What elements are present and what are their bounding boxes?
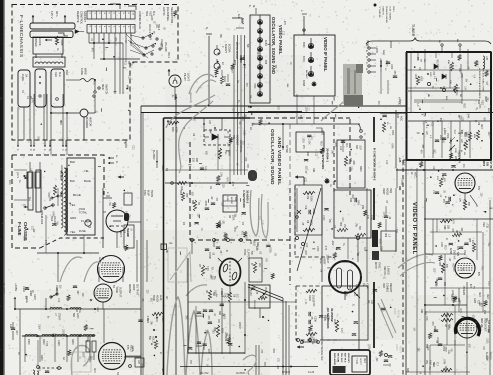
- svg-text:4.7K: 4.7K: [146, 316, 148, 321]
- svg-text:1M: 1M: [413, 327, 415, 330]
- svg-text:125: 125: [249, 240, 252, 245]
- svg-text:K-: K-: [171, 95, 175, 98]
- svg-text:7D: 7D: [329, 184, 331, 187]
- VIDEO IF PANEL small box: [294, 35, 335, 96]
- svg-text:10%: 10%: [129, 41, 131, 46]
- svg-text:10%: 10%: [425, 316, 427, 321]
- heavy stub 3: [373, 282, 375, 348]
- tube AUD OUT: [98, 256, 125, 283]
- plug cartridge 2: [51, 69, 64, 107]
- ladder verticals: [423, 121, 425, 158]
- svg-text:R44: R44: [256, 51, 258, 56]
- svg-text:750K: 750K: [161, 316, 164, 322]
- svg-text:VR: VR: [24, 296, 26, 300]
- svg-text:YEL: YEL: [70, 230, 76, 234]
- svg-text:GRN: GRN: [436, 337, 438, 342]
- heavy stub 2: [373, 188, 375, 220]
- svg-text:PH-100: PH-100: [282, 371, 291, 374]
- svg-text:39K: 39K: [345, 293, 347, 298]
- svg-text:R44: R44: [487, 329, 489, 334]
- svg-text:1500: 1500: [462, 286, 464, 292]
- hor osc box: [188, 282, 245, 353]
- svg-text:47K: 47K: [420, 150, 422, 155]
- capacitor E13: [11, 327, 15, 329]
- VIDEO IF dashed border: [402, 160, 404, 375]
- fuse F1: [85, 220, 91, 226]
- pencil arcs A3: [60, 257, 82, 282]
- svg-text:1500: 1500: [27, 339, 30, 345]
- svg-text:GRN: GRN: [51, 211, 53, 216]
- small transistor symbols: [214, 49, 220, 55]
- svg-text:C31: C31: [123, 61, 125, 66]
- wire x425: [424, 160, 426, 375]
- med switch contact: [94, 91, 96, 93]
- wire y366: [180, 366, 318, 368]
- B4 box contents: [208, 290, 211, 300]
- svg-text:6800: 6800: [223, 314, 225, 320]
- wire K bus: [208, 36, 210, 106]
- tuner brace: [366, 38, 491, 44]
- svg-text:1K: 1K: [458, 232, 460, 235]
- svg-text:R44: R44: [272, 349, 274, 354]
- svg-text:6BZ6: 6BZ6: [302, 42, 304, 48]
- svg-text:R82: R82: [226, 293, 228, 298]
- wire x20: [19, 309, 21, 375]
- svg-text:6CB6: 6CB6: [449, 248, 452, 255]
- svg-text:VIDEO IF PANEL: VIDEO IF PANEL: [411, 202, 417, 255]
- control cable wires: [233, 35, 235, 175]
- svg-text:6800: 6800: [37, 366, 39, 372]
- svg-text:BLK: BLK: [70, 160, 75, 164]
- svg-text:GRN: GRN: [150, 15, 152, 20]
- svg-text:220K: 220K: [454, 148, 456, 154]
- svg-text:C12: C12: [57, 298, 59, 303]
- svg-text:100: 100: [192, 158, 195, 163]
- svg-text:AGC: AGC: [305, 74, 308, 79]
- tube 2ND VIF 525: [455, 258, 475, 278]
- fuse wire squiggle: [80, 79, 95, 82]
- svg-text:RED: RED: [478, 292, 480, 297]
- resistor 470K: [55, 36, 58, 45]
- small relay circuit: [53, 185, 56, 195]
- terminal strip bus wires down: [88, 33, 90, 43]
- svg-text:VIDEO: VIDEO: [489, 352, 492, 360]
- svg-text:1500: 1500: [243, 130, 245, 136]
- svg-text:VR: VR: [485, 82, 487, 86]
- svg-text:DR: DR: [459, 94, 461, 98]
- svg-text:VR: VR: [482, 346, 484, 350]
- svg-text:R88: R88: [443, 225, 446, 230]
- C3 right box: [334, 190, 371, 238]
- svg-text:+265V: +265V: [14, 283, 18, 291]
- left dark tube blob: [248, 170, 257, 181]
- svg-text:39K: 39K: [185, 315, 187, 320]
- svg-text:BLUE: BLUE: [73, 193, 81, 197]
- resistor R8 100K: [303, 228, 315, 231]
- svg-text:.001: .001: [472, 314, 474, 319]
- svg-text:6AW8: 6AW8: [302, 80, 305, 87]
- tuner heavy box: [406, 51, 492, 53]
- svg-text:.022: .022: [23, 203, 25, 208]
- svg-text:VR: VR: [126, 86, 128, 90]
- svg-text:1M: 1M: [463, 152, 465, 155]
- svg-text:T-100: T-100: [355, 358, 357, 365]
- svg-text:R107: R107: [33, 294, 36, 300]
- svg-text:BLUE: BLUE: [84, 179, 91, 183]
- svg-text:6800: 6800: [433, 326, 435, 332]
- svg-text:MOM: MOM: [59, 192, 61, 198]
- svg-text:6CG7: 6CG7: [319, 258, 322, 265]
- left page edge black bar: [0, 0, 4, 375]
- pilot light: [169, 75, 181, 87]
- wire x103: [102, 188, 104, 248]
- wire x467: [466, 282, 468, 375]
- svg-text:1M: 1M: [389, 126, 391, 129]
- grey pencil smudge block: [343, 64, 362, 104]
- svg-text:YEL: YEL: [353, 292, 355, 297]
- svg-text:VR: VR: [241, 222, 243, 226]
- svg-text:6800: 6800: [125, 211, 127, 217]
- svg-text:10%: 10%: [350, 166, 352, 171]
- picture tube socket heavy box: [330, 350, 370, 375]
- svg-text:5%: 5%: [251, 123, 253, 126]
- svg-text:10%: 10%: [447, 325, 449, 330]
- svg-text:4.7K: 4.7K: [340, 328, 342, 333]
- pot arrow A-1: [450, 148, 452, 150]
- svg-text:6BC5: 6BC5: [482, 160, 485, 167]
- bus y112 dark segment: [248, 111, 302, 113]
- plug cartridge: [35, 69, 46, 107]
- RC module box: [322, 286, 368, 340]
- svg-text:R81: R81: [442, 199, 444, 204]
- svg-text:C12: C12: [385, 160, 387, 165]
- svg-text:VR: VR: [149, 37, 151, 41]
- svg-text:710: 710: [486, 224, 489, 229]
- wire x406: [405, 94, 407, 375]
- svg-text:439: 439: [355, 284, 358, 289]
- svg-text:100K: 100K: [312, 301, 314, 307]
- svg-text:A-: A-: [115, 155, 119, 158]
- svg-text:39K: 39K: [191, 200, 194, 205]
- svg-text:R69: R69: [384, 233, 386, 238]
- svg-text:4.7K: 4.7K: [31, 98, 33, 103]
- svg-text:C31: C31: [303, 178, 305, 183]
- heavy stub: [373, 117, 375, 142]
- svg-text:3300: 3300: [444, 347, 446, 353]
- terminal arrow into sync network: [295, 175, 298, 178]
- diagonal leads from jumper plug: [126, 34, 140, 48]
- svg-text:6800: 6800: [213, 290, 215, 296]
- box VR1: [249, 285, 270, 308]
- svg-text:R103: R103: [308, 295, 311, 301]
- svg-text:H-B GRN: H-B GRN: [59, 170, 61, 180]
- coil: [70, 308, 81, 309]
- svg-text:CR: CR: [420, 59, 422, 63]
- svg-text:YEL: YEL: [481, 266, 483, 271]
- svg-text:1.36: 1.36: [261, 220, 264, 225]
- svg-text:910: 910: [220, 291, 223, 296]
- svg-text:4.7K: 4.7K: [324, 246, 326, 251]
- pilot arrow: [168, 69, 171, 71]
- svg-text:K-: K-: [115, 161, 119, 164]
- svg-text:⁂ INDICATES A RESISTANCE: ⁂ INDICATES A RESISTANCE: [478, 68, 481, 99]
- pencil arcs D3: [398, 254, 433, 268]
- wire y253: [37, 252, 99, 254]
- wire: [146, 240, 148, 282]
- svg-text:5%: 5%: [225, 333, 227, 336]
- svg-text:DEL: DEL: [188, 158, 191, 163]
- svg-text:101: 101: [8, 180, 12, 185]
- svg-text:100K: 100K: [226, 196, 228, 202]
- svg-text:5%: 5%: [56, 222, 58, 225]
- svg-text:.047: .047: [76, 290, 78, 295]
- terminals on dashed line y240: [191, 239, 194, 242]
- capacitor C86: [459, 246, 463, 248]
- svg-text:10K: 10K: [370, 300, 372, 305]
- pencil W curves C3: [250, 190, 259, 236]
- svg-text:5%: 5%: [234, 214, 236, 217]
- resistor R86 6800: [216, 325, 219, 337]
- svg-text:.047: .047: [15, 330, 18, 335]
- svg-text:30K: 30K: [398, 186, 401, 191]
- bus y106: [141, 105, 406, 107]
- svg-text:WIRE: WIRE: [84, 68, 88, 75]
- resistor R7: [201, 265, 204, 276]
- svg-text:6EM5A: 6EM5A: [128, 284, 132, 293]
- svg-text:SOCKET: SOCKET: [236, 135, 239, 146]
- svg-text:6T5: 6T5: [126, 345, 130, 350]
- svg-text:4.7K: 4.7K: [226, 177, 228, 182]
- svg-text:1M: 1M: [244, 114, 246, 117]
- toner unevenness washes: [140, 230, 270, 375]
- svg-text:10%: 10%: [383, 271, 385, 276]
- svg-text:1F: 1F: [410, 172, 413, 175]
- svg-text:F-LINE: F-LINE: [17, 222, 22, 236]
- socket funnel arrow: [75, 30, 79, 34]
- svg-text:6-: 6-: [123, 142, 126, 144]
- A3 power box extra: [14, 169, 27, 171]
- svg-text:GRN: GRN: [357, 200, 359, 205]
- interlock arrow: [45, 39, 47, 41]
- svg-text:1M: 1M: [192, 133, 194, 136]
- svg-text:70VA: 70VA: [79, 207, 85, 211]
- svg-text:1500: 1500: [301, 138, 303, 144]
- svg-text:12K: 12K: [137, 360, 139, 365]
- svg-text:+140V: +140V: [375, 46, 378, 53]
- svg-text:6800: 6800: [179, 190, 181, 196]
- output transformer: [86, 341, 90, 352]
- svg-text:30-6504-1: 30-6504-1: [326, 148, 330, 162]
- bus y113 stub: [380, 113, 406, 115]
- svg-text:C100: C100: [249, 290, 251, 296]
- svg-text:1M: 1M: [238, 121, 240, 124]
- switch: [51, 294, 57, 297]
- VIF panel interior wires: [416, 168, 418, 375]
- svg-text:RED: RED: [54, 72, 57, 77]
- svg-text:6U8: 6U8: [237, 14, 240, 19]
- svg-text:6TC: 6TC: [428, 259, 430, 264]
- svg-text:1B: 1B: [236, 80, 238, 83]
- bus y112: [141, 112, 493, 114]
- svg-text:.022: .022: [160, 42, 162, 47]
- svg-text:GRN: GRN: [391, 143, 393, 148]
- junction box 5C: [161, 244, 167, 250]
- svg-text:SW 3: SW 3: [167, 52, 170, 59]
- svg-text:22K: 22K: [193, 117, 195, 122]
- svg-text:OF LESS THAN 1 OHM: OF LESS THAN 1 OHM: [482, 68, 485, 91]
- svg-text:R81: R81: [432, 149, 434, 154]
- svg-text:6DK6: 6DK6: [302, 56, 304, 62]
- svg-text:SW2: SW2: [50, 216, 53, 222]
- svg-text:HOR.: HOR.: [132, 284, 136, 291]
- svg-text:2A: 2A: [25, 74, 29, 77]
- retrace arrow: [297, 345, 300, 348]
- svg-text:100K: 100K: [308, 139, 310, 145]
- svg-text:R44: R44: [483, 310, 485, 315]
- resistor 36K: [441, 368, 452, 371]
- vert output tube C3: [329, 261, 361, 293]
- svg-text:GRN: GRN: [442, 359, 444, 364]
- svg-text:HOLD: HOLD: [156, 295, 159, 302]
- svg-text:AGC: AGC: [402, 160, 405, 166]
- pencil arc B1: [189, 74, 214, 94]
- svg-text:VIDEO IF PANEL: VIDEO IF PANEL: [323, 37, 328, 72]
- svg-text:AD-: AD-: [456, 39, 459, 43]
- svg-text:1ST VIF: 1ST VIF: [489, 160, 492, 169]
- svg-text:4.7K: 4.7K: [459, 308, 461, 313]
- fuse holder F2: [18, 70, 30, 107]
- svg-text:.015: .015: [207, 315, 209, 320]
- svg-text:R50: R50: [339, 222, 341, 227]
- wire x141: [140, 106, 142, 375]
- svg-text:45V: 45V: [477, 186, 480, 191]
- svg-text:C31: C31: [341, 217, 343, 222]
- svg-text:47K: 47K: [90, 48, 92, 53]
- jumper bracket on strip: [128, 6, 136, 10]
- svg-text:USED IN: USED IN: [382, 6, 384, 15]
- terminal strip row 2: [87, 25, 135, 34]
- svg-text:390K: 390K: [359, 166, 362, 172]
- line plug bar 1: [30, 23, 75, 29]
- svg-text:39K: 39K: [205, 329, 207, 334]
- diagonal wire: [297, 188, 321, 271]
- terminal: [37, 366, 40, 369]
- svg-text:YEL: YEL: [450, 348, 452, 353]
- svg-text:.007: .007: [304, 250, 307, 255]
- F-LINE CHASSIS dashed border: [12, 5, 178, 141]
- svg-text:COMP: COMP: [208, 252, 210, 259]
- wire y302: [188, 301, 296, 303]
- svg-text:AGC: AGC: [414, 172, 417, 178]
- svg-text:60∿: 60∿: [55, 11, 59, 17]
- transformer windings: [64, 168, 66, 235]
- B3 components: [181, 192, 184, 201]
- switch contacts: [142, 37, 144, 39]
- svg-text:C12: C12: [281, 31, 283, 36]
- svg-text:R16: R16: [171, 127, 174, 132]
- svg-text:9-: 9-: [159, 352, 162, 354]
- interlock box: [33, 37, 63, 54]
- svg-text:10%: 10%: [219, 172, 221, 177]
- svg-text:3C: 3C: [165, 296, 169, 299]
- interlock switch column: [28, 172, 33, 210]
- svg-text:4.7K: 4.7K: [441, 175, 443, 180]
- svg-text:L-: L-: [300, 10, 303, 12]
- svg-text:330: 330: [424, 311, 427, 316]
- svg-text:1500: 1500: [61, 329, 63, 335]
- wire y168: [396, 169, 493, 171]
- wire y254: [425, 253, 465, 255]
- arrow terminal: [118, 175, 121, 178]
- svg-text:BLK: BLK: [70, 179, 75, 183]
- svg-text:1M: 1M: [448, 258, 450, 261]
- svg-text:22K: 22K: [197, 214, 199, 219]
- power chassis dashed border: [12, 155, 104, 195]
- svg-text:.022: .022: [434, 282, 436, 287]
- svg-text:C-: C-: [365, 62, 368, 65]
- svg-text:VERT: VERT: [382, 188, 385, 195]
- svg-text:1M: 1M: [464, 86, 466, 89]
- wire y124: [252, 123, 360, 125]
- svg-text:1B: 1B: [182, 222, 185, 225]
- svg-text:WHITE WOOD: WHITE WOOD: [235, 42, 238, 59]
- svg-text:3300: 3300: [40, 355, 43, 361]
- pencil mountains B4: [167, 297, 185, 375]
- capacitor C106: [308, 312, 310, 316]
- svg-text:30K: 30K: [355, 145, 358, 150]
- svg-text:5%: 5%: [128, 215, 130, 218]
- svg-text:.022: .022: [433, 267, 435, 272]
- svg-text:RED: RED: [363, 358, 365, 363]
- svg-text:SW1: SW1: [145, 11, 148, 17]
- resistor R103: [306, 289, 317, 292]
- svg-text:G-: G-: [365, 68, 368, 71]
- svg-text:RED: RED: [443, 245, 445, 250]
- svg-text:1500: 1500: [458, 115, 460, 121]
- terminal strip row 1: [87, 11, 135, 19]
- svg-text:1M: 1M: [477, 122, 479, 125]
- svg-text:.001: .001: [229, 139, 231, 144]
- svg-text:50K: 50K: [148, 336, 151, 341]
- svg-text:6T10: 6T10: [143, 190, 146, 196]
- plug pins at border: [17, 140, 19, 147]
- top right cluster D4: [453, 296, 457, 298]
- svg-text:GRN: GRN: [76, 313, 79, 319]
- svg-text:VR: VR: [27, 198, 29, 202]
- svg-text:20K: 20K: [471, 240, 473, 245]
- svg-text:C12: C12: [256, 246, 258, 251]
- svg-text:FUSE: FUSE: [80, 68, 84, 75]
- component box C2 right: [337, 140, 365, 188]
- svg-text:6800: 6800: [378, 239, 380, 245]
- svg-text:39K: 39K: [416, 348, 418, 353]
- svg-text:RED: RED: [486, 294, 488, 299]
- capacitor: [205, 248, 209, 250]
- svg-text:C12: C12: [305, 243, 307, 248]
- svg-text:MOTOR: MOTOR: [89, 117, 92, 126]
- svg-text:.001: .001: [236, 293, 238, 298]
- svg-text:+250V: +250V: [379, 58, 382, 65]
- svg-text:5U4GB: 5U4GB: [126, 228, 129, 236]
- svg-text:22K: 22K: [89, 356, 91, 361]
- svg-text:644: 644: [258, 216, 261, 221]
- svg-text:R•: R•: [56, 48, 59, 51]
- svg-text:YEL: YEL: [84, 169, 89, 173]
- svg-text:2-: 2-: [29, 149, 32, 151]
- svg-text:3300: 3300: [42, 339, 45, 345]
- wire y305: [425, 304, 467, 306]
- wire x297: [296, 188, 298, 232]
